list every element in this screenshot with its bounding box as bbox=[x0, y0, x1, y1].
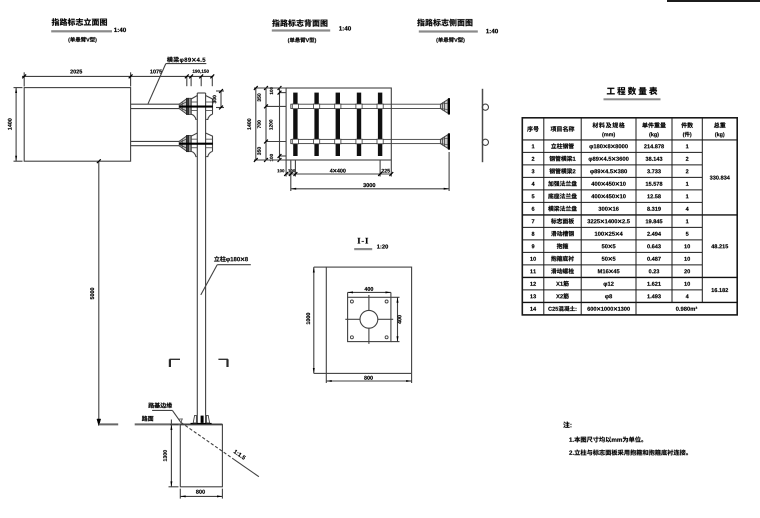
side view: post line bbox=[482, 89, 484, 162]
table: header row bbox=[527, 122, 725, 137]
elevation: foundation depth dimension 1300 bbox=[163, 420, 178, 487]
notes 注 bbox=[563, 422, 688, 456]
elevation: post spec label 立柱φ180×8 with leader bbox=[201, 256, 251, 295]
side view: beam 1 end circle bbox=[482, 104, 488, 110]
elevation: ground line 路面 bbox=[99, 423, 222, 425]
elevation: beam2-to-post clamp bracket with flange bbox=[179, 133, 213, 157]
elevation: foundation block bbox=[180, 425, 222, 487]
table: merged total weights bbox=[710, 176, 730, 293]
section I-I: anchor bolt holes bbox=[350, 300, 388, 339]
back view: overall bottom dimension 3000 bbox=[291, 152, 449, 191]
elevation: anchor base plate and gussets bbox=[191, 415, 212, 424]
back view: left outer dimension 1400 bbox=[247, 86, 286, 162]
back view: sign panel outline bbox=[286, 88, 391, 160]
section I-I: right dimension 400 bbox=[391, 297, 402, 341]
elevation: left dimension 1400 (sign height) bbox=[8, 88, 23, 162]
back view: bottom dimension 100/100/4x400/225 bbox=[277, 161, 393, 177]
elevation: foundation width dimension 800 bbox=[180, 489, 222, 499]
elevation: roadbed edge label 路基边缘 with leader arrow bbox=[148, 403, 182, 423]
elevation: section cut mark I (right) bbox=[218, 359, 228, 367]
side view: beam 2 end circle bbox=[482, 139, 488, 145]
section I-I: base flange plate 400x400 bbox=[348, 297, 391, 341]
back view: beam 1 crossing panel with end flange bbox=[291, 98, 450, 114]
section I-I: foundation outline 800x1000 bbox=[326, 267, 411, 373]
section I-I: post circle bbox=[360, 310, 378, 328]
elevation: beam 1 (horizontal pipe to post) bbox=[131, 104, 180, 108]
sheet frame edge (top right) bbox=[667, 0, 760, 2]
back view: clamp plates at channel-beam crossings bbox=[292, 104, 383, 144]
table: grid bbox=[522, 118, 737, 315]
elevation: section cut mark I (left) bbox=[170, 359, 181, 367]
elevation: beam spec label 横梁φ89×4.5 with leader bbox=[148, 57, 206, 104]
elevation: flange diameter dimension 300 bbox=[213, 89, 224, 109]
table: row 14 concrete bbox=[530, 306, 697, 311]
back view: left middle dimension 350/700/350 bbox=[257, 86, 286, 162]
elevation: slope line 1:1.5 (dashed then solid) bbox=[181, 423, 259, 477]
elevation: road surface label 路面 bbox=[142, 416, 154, 422]
back view: beam 2 crossing panel with end flange bbox=[291, 133, 450, 149]
elevation: mounting height dimension 5000 bbox=[90, 159, 101, 426]
section I-I: bottom dimension 800 bbox=[326, 374, 411, 383]
elevation: post (vertical pipe) bbox=[197, 93, 205, 424]
elevation: beam 2 (horizontal pipe to post) bbox=[131, 141, 180, 145]
back view: five vertical slide channels bbox=[293, 93, 382, 156]
elevation: beam1-to-post clamp bracket with flange bbox=[179, 96, 213, 120]
table: title 工程数量表 bbox=[604, 87, 661, 100]
title: elevation view label 指路标志立面图 1:40 bbox=[51, 18, 126, 42]
back view: left inner dimension 100/1200/100 bbox=[269, 86, 286, 162]
section I-I: title bbox=[354, 238, 388, 250]
section I-I: centerlines bbox=[345, 295, 393, 344]
section I-I: top dimension 400 bbox=[348, 287, 391, 297]
elevation: sign panel rectangle bbox=[24, 88, 130, 162]
table: data rows 1-13 bbox=[530, 143, 690, 299]
section I-I: left dimension 1000 bbox=[306, 267, 326, 373]
elevation: top dimension line 2025 / 1075 / 190,150 bbox=[22, 70, 214, 87]
title: back view label 指路标志背面图 1:40 bbox=[272, 19, 351, 43]
title: side view label 指路标志侧面图 1:40 bbox=[417, 19, 498, 43]
